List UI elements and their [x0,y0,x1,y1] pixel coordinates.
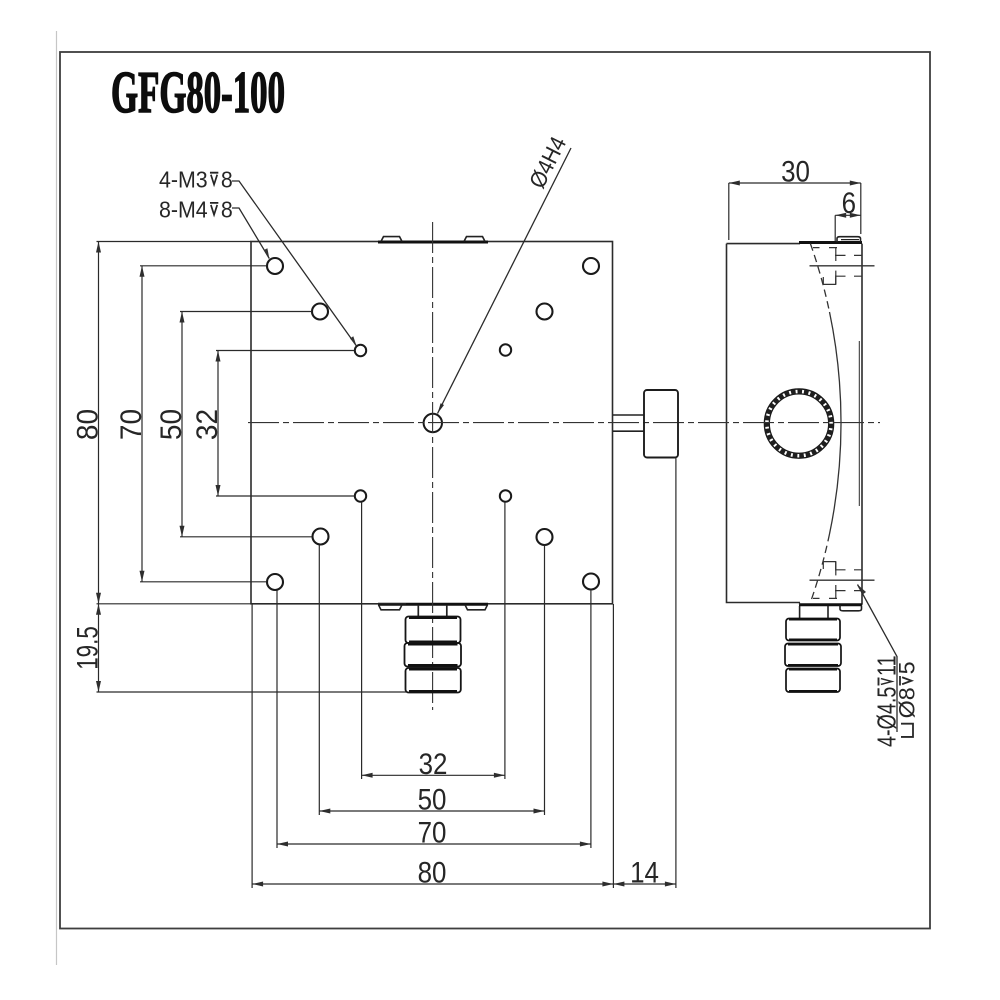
side knob band1 [786,619,840,641]
label 4-Ø4.5 depth 11 (rotated) [872,655,901,747]
horizontal centerline [248,422,697,424]
svg-text:80: 80 [72,409,105,440]
hole M4 bottom-right [583,574,599,590]
counterbore leader [858,585,898,733]
svg-text:GFG80-100: GFG80-100 [111,61,285,126]
faint left margin line [56,31,58,965]
arc dashed bottom [810,534,829,602]
label 8-M4 depth 8 [159,197,233,223]
leader 8-M4 depth 8 [232,208,269,259]
dim lines bottom [362,774,505,776]
dim line 6 [835,214,861,216]
side knob shaft [613,414,644,416]
top tab left [381,237,402,242]
hole M4 upper-right-50 [537,304,553,320]
thick bottom platform edge [378,603,488,606]
svg-text:80: 80 [418,856,447,889]
svg-text:8-M4: 8-M4 [159,197,208,223]
svg-text:4-M3: 4-M3 [159,167,208,193]
inner right step line [858,341,860,506]
thick top platform edge [378,241,488,244]
title GFG80-100 [111,61,285,126]
side knob [644,390,678,458]
ext lines bottom dims [251,604,253,888]
svg-text:8: 8 [221,197,233,223]
drawing frame border [60,52,930,929]
ext line 6 [834,215,836,241]
hole M3 top-right [500,344,511,355]
top tab right [464,237,485,242]
svg-text:50: 50 [155,409,188,440]
big knob circle [764,389,833,458]
leader Ø4H4 [438,148,572,414]
thick top platform edge [799,241,862,244]
arc solid middle [830,312,842,534]
bottom knob band2 [405,643,462,667]
svg-text:30: 30 [781,155,810,188]
svg-text:5: 5 [894,661,919,674]
dim lines left [98,242,100,604]
svg-text:6: 6 [842,186,856,219]
body outline [727,244,801,603]
side view centerline [698,422,880,424]
dim line 30 [729,182,861,184]
hole M4 lower-right-50 [537,529,553,545]
svg-text:14: 14 [630,856,659,889]
bottom tab [840,605,862,610]
hole M4 top-right [583,258,599,274]
thick bottom platform edge [799,603,862,606]
label 4-M3 depth 8 [159,167,233,193]
connect bottom faces [799,603,801,605]
ext lines left dims [97,241,252,243]
center hole Ø4H4 [424,414,442,432]
bottom knob band3 [406,668,461,693]
vertical centerline [432,222,434,710]
platform plate outline [251,242,613,604]
svg-text:19.5: 19.5 [70,626,104,670]
svg-text:70: 70 [418,816,447,849]
bottom knob band1 [406,617,461,644]
side knob band2 [785,644,841,667]
side bottom knob shaft [799,606,801,619]
right edge [861,244,863,605]
svg-text:Ø8: Ø8 [894,687,919,718]
ext lines 30 [728,183,730,240]
bottom clamp hidden section (mirror) [810,562,875,599]
hole M4 upper-left-50 [312,304,328,320]
hole M3 bottom-right [500,490,511,501]
label counterbore Ø8 depth 5 (rotated) [894,661,919,737]
top tab [837,237,861,242]
bottom tab right [465,605,488,610]
arc worm sliding surface dashed top [810,244,829,312]
hole M4 bottom-left [267,574,283,590]
bottom knob shaft [417,605,419,617]
bottom tab left [379,605,403,610]
svg-text:32: 32 [419,747,448,780]
leader 4-M3 depth 8 [232,181,357,346]
svg-text:70: 70 [115,409,148,440]
hole M4 lower-left-50 [313,529,329,545]
svg-text:32: 32 [191,409,224,440]
top clamp hidden section [810,248,875,285]
arrows front dims [96,242,676,887]
hole M4 top-left [267,258,283,274]
hole M3 bottom-left [355,490,366,501]
side knob band3 [786,669,840,693]
hole M3 top-left [355,345,366,356]
svg-text:50: 50 [418,783,447,816]
svg-text:8: 8 [221,167,233,193]
